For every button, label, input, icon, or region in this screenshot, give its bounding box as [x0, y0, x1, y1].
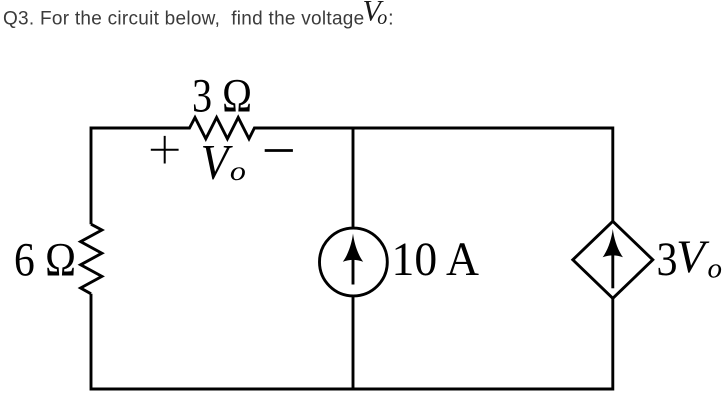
dependent source U1 arrow shaft	[611, 254, 614, 288]
resistor R2 6-ohm vertical zigzag	[81, 224, 102, 294]
current source I1 arrow shaft	[352, 256, 355, 285]
svg-text:o: o	[230, 156, 246, 186]
svg-text:6 Ω: 6 Ω	[14, 234, 76, 287]
wire bottom loop	[91, 294, 613, 389]
svg-text:3 Ω: 3 Ω	[192, 69, 252, 122]
polarity minus sign	[265, 149, 293, 152]
wire middle branch upper	[352, 128, 355, 229]
svg-text:o: o	[708, 252, 722, 284]
current source I1 arrowhead	[343, 234, 363, 262]
svg-text:Q3. For the circuit below, fi: Q3. For the circuit below, find the volt…	[3, 9, 364, 30]
svg-text:V: V	[676, 231, 710, 283]
dependent source U1 arrowhead	[603, 229, 623, 257]
polarity plus sign	[151, 136, 179, 164]
svg-text:10 A: 10 A	[392, 233, 480, 286]
wire middle branch lower	[352, 295, 355, 389]
wire top loop with resistor R1 zigzag (left node A to right node B)	[91, 118, 613, 225]
svg-text:o: o	[377, 7, 387, 29]
svg-text:V: V	[201, 134, 234, 190]
current source I1 circle	[320, 228, 388, 296]
dependent source U1 diamond	[573, 221, 653, 298]
svg-text::: :	[388, 6, 394, 29]
svg-text:3: 3	[657, 233, 678, 286]
